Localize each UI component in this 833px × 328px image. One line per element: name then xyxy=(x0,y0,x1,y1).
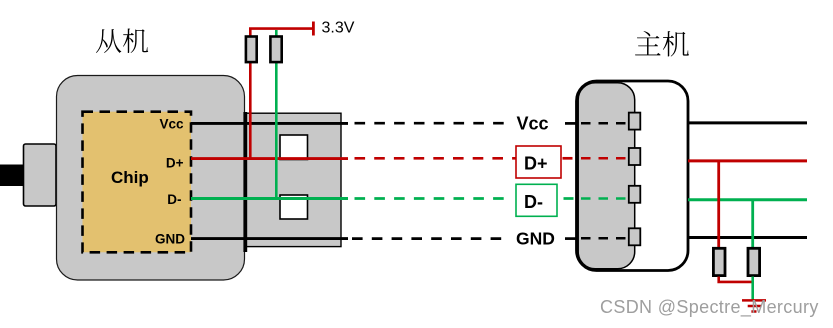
svg-text:GND: GND xyxy=(516,229,555,249)
label 主机 (host) xyxy=(635,31,689,57)
svg-text:Vcc: Vcc xyxy=(517,114,549,134)
host pin 2 xyxy=(629,148,641,165)
resistor R4 xyxy=(748,248,760,275)
plug hole 1 xyxy=(280,135,308,160)
svg-text:CSDN @Spectre_Mercury: CSDN @Spectre_Mercury xyxy=(600,297,819,318)
dashed stub D- to host xyxy=(564,197,580,200)
wire red vertical to R3 xyxy=(717,161,720,248)
wire D+ chip to plug xyxy=(191,157,348,160)
resistor R3 xyxy=(713,248,725,275)
plug shield divider xyxy=(243,112,247,252)
wire GND host right xyxy=(688,236,807,239)
resistor R2 xyxy=(270,37,281,63)
resistor R1 xyxy=(246,37,257,63)
ground bar 2 xyxy=(748,305,761,308)
wire D+ host right xyxy=(688,159,807,162)
host pin 4 xyxy=(629,228,641,245)
dashed net Vcc xyxy=(355,122,509,125)
dashed stub Vcc to host xyxy=(565,122,579,125)
wire green vertical to R4 xyxy=(751,200,754,248)
wire green vertical from R2 to D- xyxy=(275,30,278,200)
dashed stub GND to host xyxy=(565,237,579,240)
wire R3 bottom to ground xyxy=(719,277,753,282)
label 从机 (slave) xyxy=(96,29,148,54)
wire 3.3V rail xyxy=(249,27,314,30)
wire Vcc chip to plug xyxy=(191,122,348,125)
dashed D- inside host xyxy=(581,197,628,200)
wire D- host right xyxy=(688,198,807,201)
USB plug shield xyxy=(245,113,341,246)
host pin 3 xyxy=(629,186,641,203)
host receptacle contact block xyxy=(578,83,635,269)
wire Vcc host right xyxy=(688,121,807,124)
cable stub xyxy=(0,165,23,187)
chip U1 xyxy=(83,112,192,253)
ground bar 1 xyxy=(742,299,766,302)
host receptacle outer shell xyxy=(577,81,689,271)
wire GND chip to plug xyxy=(191,237,348,240)
dashed GND inside host xyxy=(581,237,628,240)
svg-text:D-: D- xyxy=(167,192,181,207)
wire R4 bottom to ground xyxy=(751,277,754,301)
svg-text:Chip: Chip xyxy=(111,168,149,187)
svg-text:D+: D+ xyxy=(524,154,548,174)
host pin 1 xyxy=(629,113,641,130)
slave device body xyxy=(57,76,245,281)
net box D- xyxy=(516,184,557,216)
cable strain relief xyxy=(24,144,57,206)
svg-text:Vcc: Vcc xyxy=(159,116,184,131)
plug hole 2 xyxy=(280,195,308,219)
3.3V terminal bar xyxy=(312,22,315,36)
svg-text:3.3V: 3.3V xyxy=(322,20,355,37)
dashed net D- xyxy=(355,197,509,200)
dashed stub D+ to host xyxy=(563,157,579,160)
svg-text:D-: D- xyxy=(524,192,543,212)
dashed net D+ xyxy=(355,157,517,160)
dashed D+ inside host xyxy=(581,157,628,160)
svg-text:GND: GND xyxy=(155,232,185,247)
wire D- chip to plug xyxy=(191,197,348,200)
ground bar 3 xyxy=(751,310,756,313)
dashed net GND xyxy=(352,237,506,240)
dashed Vcc inside host xyxy=(581,122,628,125)
svg-text:D+: D+ xyxy=(166,156,184,171)
wire red vertical from R1 to D+ xyxy=(249,28,252,160)
net box D+ xyxy=(516,146,561,178)
